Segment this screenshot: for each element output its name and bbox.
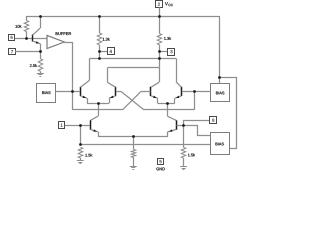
node tail resistor junction [132,135,135,138]
transistor Q1 input emitter-follower [32,34,34,41]
transistor Q2 diff pair left [80,87,82,96]
bias cell B3 box [211,133,230,155]
wire pin7 to emitter node [15,51,40,53]
wire B2 to Q5 base node [194,91,210,93]
wire H2 reference line [80,144,210,146]
resistor R1 10k body [26,16,28,21]
pin 6 box [9,35,15,41]
wire B1 to base node [56,91,73,93]
wire Q7 base [177,125,184,127]
wire pin1 node down to H2 [80,125,82,145]
label BUFFER [56,32,71,35]
wire Q3 base stub + cross link D1 [116,91,121,93]
transistor Q7 enable switch right (mirrored) [176,120,178,129]
pin 7 box [9,49,16,55]
pin 8 box [210,117,217,124]
node pin3 tap [158,50,161,53]
pin 5 box GND legend [158,159,164,165]
node top rail / VCC riser junction [158,15,161,18]
wire Q7 base to bias B3 [184,126,211,136]
node right emitter common [166,102,169,105]
transistor Q6 enable switch left [90,120,92,129]
wire top-right drop to bias [219,16,221,78]
node pin1 branch [79,124,82,127]
node pin4 tap [98,50,101,53]
label R2 2.5k [30,64,37,67]
resistor R7 1.5k right body [181,147,185,158]
pin 4 box [108,48,115,55]
ground below R7 [180,166,187,168]
wire emitter tail H1 [98,136,168,138]
label VCC [165,2,168,5]
label R1 10k [16,25,22,28]
wire to pin 4 [99,51,107,53]
ground below 2.5k [37,73,44,75]
ground below R5 [77,160,84,162]
node pin7/emitter junction [39,50,42,53]
node left 1.3k to rail A [98,57,101,60]
transistor Q4 latch pair left [150,87,152,96]
op-amp U1 buffer triangle [47,35,64,48]
wire right common to Q7 collector [167,103,169,116]
pin 1 box [59,122,65,129]
node left emitter common [97,102,100,105]
wire Q4 base stub + cross link D2 [141,91,151,93]
resistor R5 1.5k left body [78,147,82,158]
node 10k bottom junction [25,37,28,40]
wire Q2 base [73,91,81,93]
wire collector rail B [108,67,160,69]
bias cell B1 box [37,84,56,103]
node buffer/bias/Q2 base [71,90,74,93]
wire buffer output [64,43,72,92]
wire Q7 base to pin 8 [184,121,210,126]
transistor Q3 diff pair right (mirrored) [115,87,117,96]
transistor Q5 latch pair right (mirrored) [181,87,183,96]
wire left common to Q6 collector [98,103,100,116]
wire VCC top rail [26,16,219,18]
node Q5 base / bias node [193,90,196,93]
wire collector rail A [90,58,177,60]
label R4 1.3k [164,37,171,40]
resistor R6 tail body [133,137,135,150]
wire Q5 base [182,91,194,93]
wire Q7 base down to 1.5k [183,125,185,147]
node H2 left end [79,143,82,146]
wire bias chain right loop [219,78,237,149]
resistor R2 2.5k body [38,59,42,72]
node Q7 base tee [182,124,185,127]
wire VCC stem [159,8,161,17]
node top rail / left 1.3k junction [98,15,101,18]
label R7 1.5k [188,153,195,156]
node right 1.3k to rail A [158,57,161,60]
pin 2 box VCC [156,1,163,8]
resistor R4 1.3k right body [159,16,161,34]
label GND [156,168,165,171]
label R3 1.3k [103,38,110,41]
node bias top tee [218,76,221,79]
wire to pin 3 [159,51,168,53]
node top rail / input collector junction [39,15,42,18]
pin 3 box [168,49,175,56]
resistor R3 1.3k left body [99,16,101,33]
wire rail B riser [159,58,161,67]
wire pin1 to Q6 base [65,125,90,127]
ground below R6 [130,166,137,168]
bias cell B2 box [211,84,230,102]
label R5 1.5k [85,154,92,157]
wire pin6 to base and buffer input [15,38,47,40]
